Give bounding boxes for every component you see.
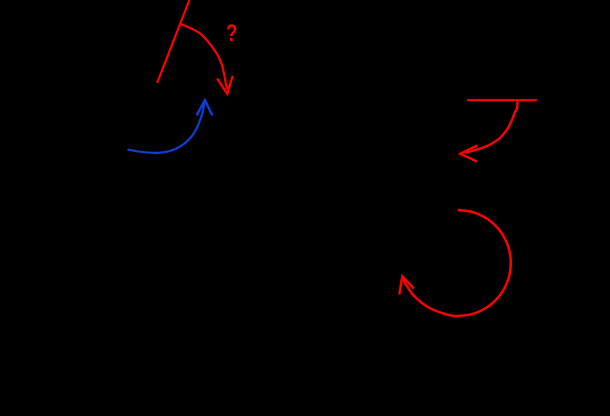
red curved arrow (right) shaft with vertical start tick [466,100,518,153]
red curved arrow (top-left, with ?) shaft [181,24,227,89]
red bond line top-left [158,1,190,82]
red curved arrow (right) head [460,146,476,161]
red horizontal bond line right [467,99,537,101]
red curved arrow (top-left) head [218,77,233,94]
blue curved arrow shaft [128,104,204,153]
big red circular arrow head [400,276,414,293]
blue curved arrow head [197,100,212,114]
question mark label [226,20,237,48]
big red circular arrow arc [402,210,511,316]
